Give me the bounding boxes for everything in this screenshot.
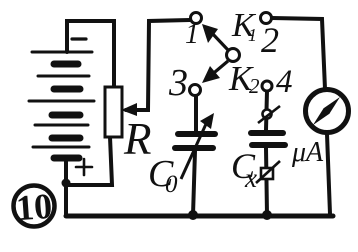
- svg-text:0: 0: [165, 171, 178, 198]
- contact 3: [190, 85, 201, 96]
- meter uA body: [306, 90, 349, 133]
- figure badge 10: [14, 186, 55, 227]
- label plus: [76, 159, 92, 175]
- contact 4: [262, 81, 272, 91]
- capacitor C0 variable arrow: [181, 124, 206, 179]
- svg-text:2: 2: [249, 74, 260, 98]
- svg-text:2: 2: [261, 20, 279, 60]
- junction dot Cx rail: [262, 210, 272, 220]
- svg-text:4: 4: [276, 64, 293, 100]
- wire contact 4 down to Cx: [266, 91, 267, 130]
- wire C0 to rail: [193, 151, 195, 215]
- svg-text:3: 3: [168, 62, 188, 104]
- wire wiper riser to contact 1: [126, 20, 190, 110]
- wire Cx to rail: [266, 148, 267, 215]
- capacitor C0 plates: [175, 134, 215, 148]
- battery GB short thick plates: [52, 64, 80, 158]
- switch arm K1: [210, 31, 228, 50]
- switch arm K2: [209, 61, 228, 77]
- svg-text:1: 1: [248, 25, 257, 45]
- wire junction down to rail: [64, 183, 68, 216]
- meter needle: [313, 97, 340, 125]
- svg-text:μA: μA: [291, 137, 324, 168]
- switch pivot: [227, 49, 240, 62]
- wire meter bottom to rail: [327, 134, 330, 214]
- terminal X1: [263, 110, 272, 119]
- terminal X2: [261, 168, 273, 179]
- wire battery bottom lead: [64, 160, 68, 183]
- wire junction to resistor bottom: [66, 137, 112, 185]
- wire contact 2 to meter top: [272, 18, 325, 89]
- resistor R body: [105, 87, 122, 137]
- svg-text:x: x: [244, 163, 257, 193]
- svg-text:10: 10: [15, 186, 54, 228]
- wire battery top to resistor top: [67, 21, 114, 87]
- resistor wiper arrowhead: [121, 103, 137, 116]
- label minus: [72, 37, 86, 40]
- contact 1: [191, 13, 202, 24]
- junction dot C0 rail: [188, 210, 198, 220]
- wire contact 3 down to C0: [194, 96, 198, 131]
- battery GB long plates: [29, 52, 94, 147]
- contact 2: [261, 13, 272, 24]
- wire bottom rail: [66, 214, 333, 219]
- junction dot battery plus: [62, 179, 71, 188]
- capacitor Cx plates: [251, 133, 285, 145]
- svg-text:1: 1: [185, 19, 199, 50]
